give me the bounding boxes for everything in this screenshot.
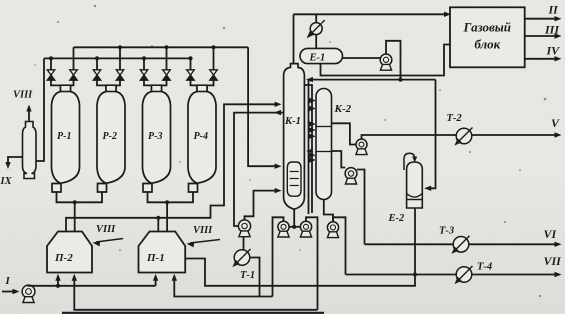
valve V3b (162, 47, 171, 85)
label VII (544, 254, 563, 268)
wire pump down to T-1 (243, 237, 245, 250)
wire bus P-1 right to VII junction (185, 259, 415, 286)
svg-text:IV: IV (546, 44, 561, 58)
valve V1a (47, 58, 60, 85)
K-1 bottom section internals (287, 162, 301, 196)
wire bus K-1 pump to P-2 bottom (72, 274, 318, 310)
column K-1 (К-1) (284, 64, 305, 210)
wire K-1 draw to hot pump (234, 110, 284, 226)
wire K-2 draw to pump N-7 (332, 123, 357, 144)
wire E-1 gas to gas block (321, 45, 451, 76)
cooler T-1 (Т-1) (232, 249, 255, 281)
svg-text:блок: блок (474, 37, 500, 52)
svg-text:III: III (544, 23, 560, 37)
svg-text:П-1: П-1 (146, 252, 165, 264)
wire upper reactor header (74, 46, 249, 48)
wire T-1 outlet (250, 258, 260, 297)
furnace P-2 (П-2) (47, 232, 92, 273)
reactor R-1 (Р-1) (52, 85, 80, 192)
wire VII collector (346, 272, 562, 277)
wire arrow into K-2 at y=130 (309, 127, 316, 132)
svg-text:VIII: VIII (13, 90, 33, 101)
condenser C-1 (307, 20, 325, 38)
reactor R-2 (Р-2) (97, 85, 125, 192)
node header junctions R2 (95, 45, 122, 60)
cooler T-4 (Т-4) (454, 262, 492, 285)
gas block (Газовый блок) (450, 7, 525, 67)
wire lower header drop to separator (36, 58, 44, 161)
pump N-3 (hot circulation) (238, 220, 250, 237)
wire K-1 bottom drain (292, 209, 296, 229)
svg-text:IX: IX (0, 176, 13, 187)
svg-text:VIII: VIII (96, 224, 116, 235)
node header junctions R4 (188, 45, 215, 60)
valve V4b (207, 47, 217, 85)
wire arrow into K-1 return (306, 149, 312, 154)
svg-text:VIII: VIII (193, 225, 213, 236)
svg-text:Т-2: Т-2 (447, 113, 463, 124)
wire reflux gooseneck (386, 41, 403, 82)
stream VI line (365, 242, 562, 247)
stream II (525, 3, 562, 22)
wire left pump discharge (273, 217, 284, 296)
cooler T-3 (Т-3) (439, 226, 470, 254)
wire drain to pumps (289, 226, 300, 228)
svg-text:I: I (5, 275, 11, 287)
column K-2 (К-2) (316, 89, 352, 200)
wire reflux to K-1 / to E-2 (306, 77, 436, 191)
node header junctions R3 (142, 45, 169, 60)
pump N-4 (K-1 bottoms left) (278, 221, 289, 237)
node header junctions R1 (49, 56, 53, 60)
wire right pump discharge (306, 217, 318, 309)
svg-text:Р-4: Р-4 (194, 131, 208, 142)
valve V4a (187, 58, 197, 85)
pump N-8 (K-2 product) (345, 168, 357, 184)
wire separator overhead VIII (13, 90, 33, 122)
pump N-7 (K-2 reflux) (356, 139, 367, 155)
wire P-2 outlet to K-1 feed (66, 102, 282, 232)
wire pump N-7 to T-2 (362, 135, 559, 139)
pump N-1 (22, 285, 35, 302)
valve V2b (116, 47, 124, 85)
wire R-3/R-4 bottoms header (148, 192, 194, 202)
wire K-1/K-2 exchange risers (304, 80, 312, 214)
wire lower reactor header (44, 57, 191, 59)
valve V1b (70, 47, 78, 85)
pump N-6 (K-2 bottoms) (327, 222, 338, 238)
wire arrow into K-2 at y=136.3 (309, 134, 316, 139)
wire reactor header down-leg to K-1 (248, 47, 282, 169)
label VI (544, 227, 558, 241)
reflux drum E-1 (Е-1) (300, 48, 343, 63)
svg-text:Т-1: Т-1 (240, 270, 255, 281)
wire E-2 inlet curl (404, 153, 417, 170)
cooler T-2 (Т-2) (447, 113, 473, 146)
svg-text:Е-1: Е-1 (309, 52, 326, 63)
reactor R-4 (Р-4) (188, 85, 216, 192)
svg-text:К-1: К-1 (284, 116, 301, 127)
stream III (525, 23, 562, 39)
wire arrow into K-2 at y=108.5 (309, 106, 316, 111)
pump N-1 feed (stream I) (2, 275, 20, 294)
separator vessel (left) (23, 122, 37, 179)
wire condenser to E-1 (315, 35, 317, 49)
wire arrow into K-2 at y=160 (309, 157, 316, 162)
wire K-2 lower draw (332, 151, 346, 168)
svg-text:Т-4: Т-4 (477, 262, 492, 273)
wire branch to condenser (315, 14, 317, 22)
svg-text:II: II (548, 3, 560, 17)
adsorber E-2 (Е-2) (388, 162, 423, 224)
valve V3a (140, 58, 151, 85)
node junction to furnace P-1 (165, 200, 169, 231)
svg-text:Е-2: Е-2 (388, 213, 406, 224)
svg-text:Р-2: Р-2 (103, 131, 117, 142)
pump N-2 (reflux) (380, 54, 392, 70)
stream IV (525, 44, 562, 62)
wire arrow into K-2 at y=155.2 (309, 153, 316, 158)
wire bus T-1 to P-1 bottom (172, 274, 273, 297)
svg-text:VII: VII (544, 254, 563, 268)
reactor R-3 (Р-3) (143, 85, 171, 192)
wire K-2 bottoms to pump (324, 200, 333, 222)
furnace P-1 (П-1) (139, 232, 186, 273)
wire R-1/R-2 bottoms header (57, 192, 103, 202)
label VIII at P-2 (93, 224, 124, 246)
svg-text:Газовый: Газовый (463, 20, 512, 35)
wire bottom scan artifact (62, 312, 324, 314)
svg-text:VI: VI (544, 227, 558, 241)
valve V2a (93, 58, 106, 85)
node junction to furnace P-2 (73, 200, 77, 231)
svg-text:Т-3: Т-3 (439, 226, 454, 237)
wire pump N-8 to T-3 line (357, 170, 365, 245)
wire feed line to furnaces (29, 274, 159, 288)
wire E-2 drain (414, 208, 416, 275)
svg-text:Р-1: Р-1 (57, 131, 71, 142)
wire arrow into K-2 at y=100.5 (309, 98, 316, 103)
wire E-1 liquid to pump (343, 57, 381, 59)
svg-text:V: V (551, 116, 560, 130)
svg-text:К-2: К-2 (334, 103, 352, 115)
wire arrow into K-2 at y=124 (309, 121, 316, 126)
wire K-1 overhead to gas block (294, 12, 452, 64)
wire K-2 pump discharge to VII (333, 217, 346, 274)
svg-text:Р-3: Р-3 (148, 131, 162, 142)
label VIII at P-1 (187, 225, 221, 247)
stream V (551, 116, 562, 138)
svg-text:П-2: П-2 (54, 252, 73, 264)
pump N-5 (K-1 bottoms right) (300, 221, 311, 237)
wire pump to K-1 bottom return (245, 188, 282, 220)
wire separator outlet IX (0, 157, 23, 187)
